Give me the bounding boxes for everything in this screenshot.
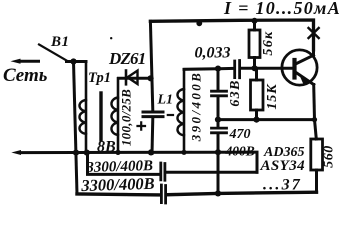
svg-text:Тр1: Тр1 [88,70,111,86]
svg-text:3300/400В: 3300/400В [80,174,155,195]
svg-text:400В: 400В [225,144,255,159]
svg-text:Сеть: Сеть [3,65,48,86]
svg-text:15К: 15К [265,83,280,110]
svg-text:...37: ...37 [263,177,302,194]
svg-text:0,033: 0,033 [195,45,231,62]
svg-text:I = 10...50мА: I = 10...50мА [223,0,340,18]
svg-text:470: 470 [229,127,251,142]
svg-text:63В: 63В [228,79,243,106]
svg-text:DZ61: DZ61 [108,49,145,68]
svg-text:В1: В1 [50,34,70,50]
svg-text:100,0/25В: 100,0/25В [119,89,134,146]
svg-text:L1: L1 [157,93,174,108]
svg-text:56к: 56к [261,30,276,55]
svg-text:390/400В: 390/400В [189,71,204,142]
svg-text:560: 560 [322,145,337,168]
svg-text:ASY34: ASY34 [260,158,306,174]
svg-text:8В: 8В [97,139,116,156]
